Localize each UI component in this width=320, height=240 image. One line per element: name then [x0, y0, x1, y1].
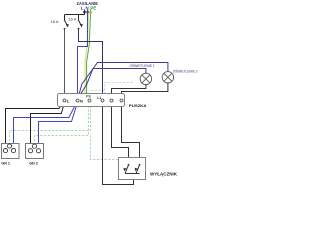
svg-text:PE: PE [90, 6, 96, 11]
svg-text:L: L [81, 6, 84, 11]
svg-text:OŚWIETLENIE 1: OŚWIETLENIE 1 [129, 63, 154, 68]
svg-text:OŚWIETLENIE 2: OŚWIETLENIE 2 [173, 68, 198, 73]
svg-text:16 A: 16 A [51, 20, 60, 24]
svg-text:N: N [86, 6, 89, 11]
svg-text:L1: L1 [97, 96, 101, 100]
svg-text:PE: PE [86, 93, 92, 98]
svg-text:N: N [80, 98, 83, 103]
svg-text:GN 1: GN 1 [1, 161, 10, 165]
svg-text:16 A: 16 A [68, 18, 77, 22]
svg-text:PUSZKA: PUSZKA [129, 103, 147, 108]
svg-text:WYŁĄCZNIK: WYŁĄCZNIK [150, 171, 177, 176]
svg-text:GN 2: GN 2 [29, 162, 38, 166]
